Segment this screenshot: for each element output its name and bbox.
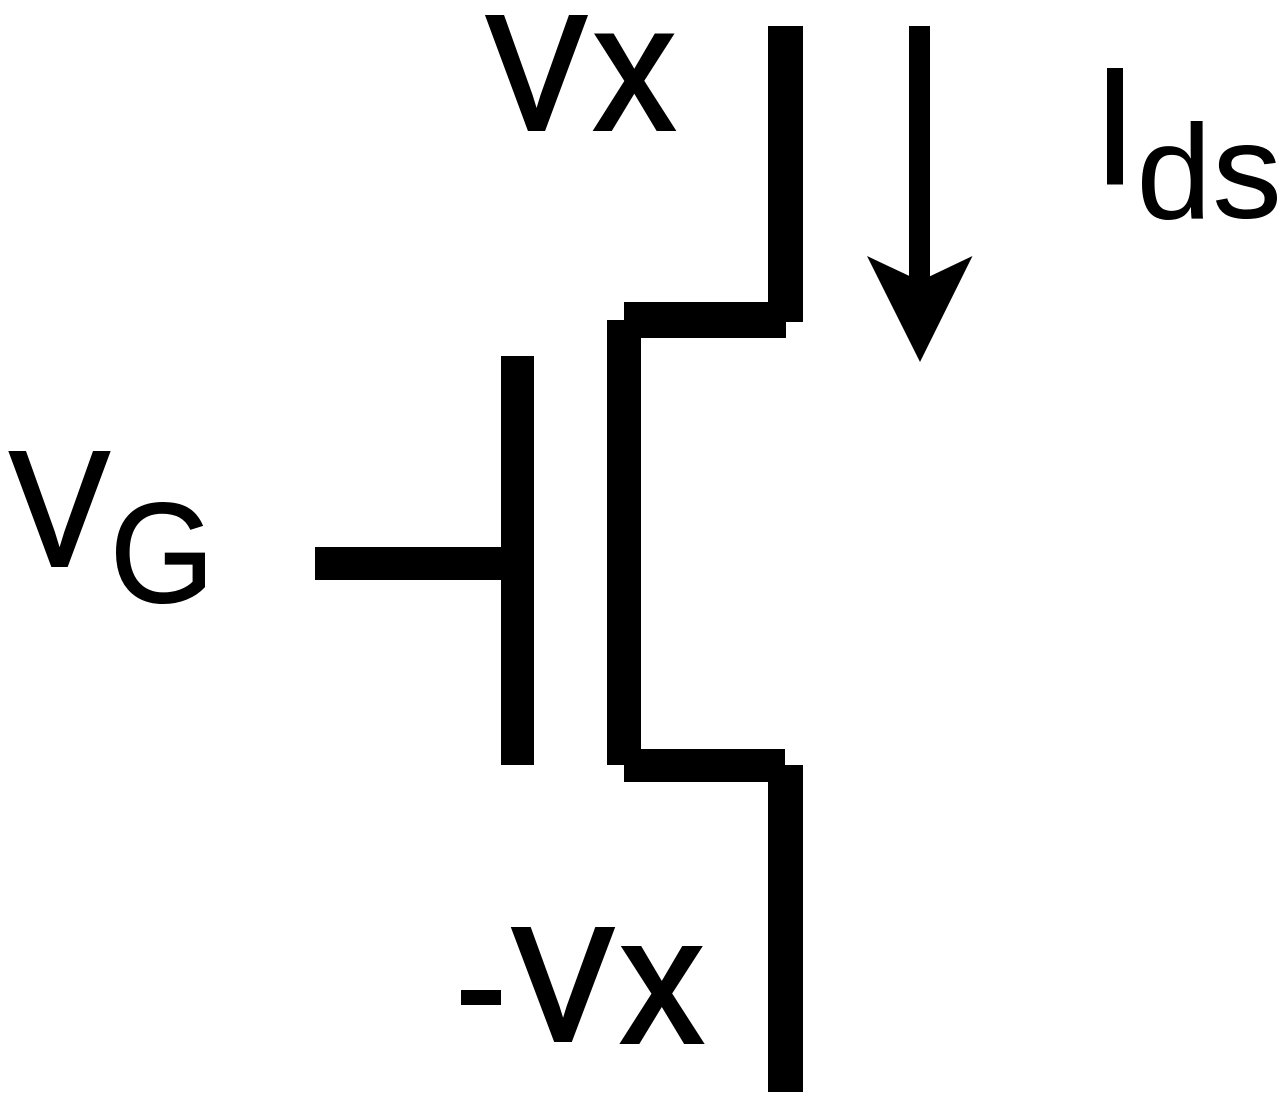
- svg-text:G: G: [110, 474, 215, 633]
- svg-text:V: V: [514, 895, 612, 1074]
- svg-text:x: x: [594, 0, 676, 168]
- svg-text:d: d: [1136, 97, 1211, 248]
- svg-text:x: x: [621, 882, 703, 1081]
- svg-text:s: s: [1212, 95, 1281, 246]
- svg-text:I: I: [1091, 33, 1139, 222]
- svg-text:V: V: [488, 0, 586, 163]
- svg-text:V: V: [10, 418, 110, 601]
